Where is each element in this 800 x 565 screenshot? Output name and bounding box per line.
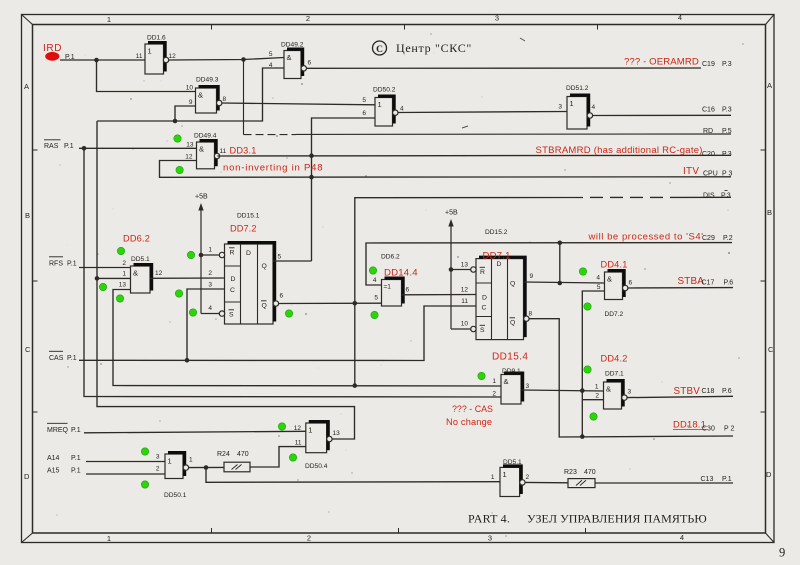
- wire DD7.1 pin 2 stub: [582, 399, 603, 401]
- resistor R23 470: [564, 469, 596, 488]
- svg-text:2: 2: [122, 260, 126, 267]
- red note DD14.4: [384, 268, 418, 279]
- node junction pin9/feedback: [173, 119, 178, 124]
- resistor R24 470: [217, 451, 250, 472]
- svg-text:R: R: [480, 269, 485, 276]
- svg-text:??? - OERAMRD: ??? - OERAMRD: [624, 57, 699, 68]
- svg-text:8: 8: [529, 311, 533, 318]
- svg-text:Q: Q: [510, 281, 515, 288]
- power +5B rail (right): [445, 210, 471, 330]
- svg-text:DD50.1: DD50.1: [164, 492, 187, 499]
- net label A14 P.1: [47, 455, 81, 462]
- svg-text:B: B: [25, 211, 30, 220]
- wire RD net down and right to RD P.5: [244, 60, 732, 135]
- wire DD15.1 pin 6 (Qbar) to DD6.2 pin 5: [273, 301, 381, 306]
- node junction DD50.1 out: [204, 465, 209, 470]
- red note DD6.2: [123, 234, 150, 244]
- node junction y385/Qbar vertical: [353, 383, 358, 388]
- svg-text:6: 6: [280, 293, 284, 300]
- wire DD1.6 pin 12 to DD49.2 pin 5: [169, 58, 284, 61]
- red note DD4.1: [601, 260, 628, 270]
- red note DD7.1 (on DD15.2): [483, 251, 511, 262]
- node junction CAS / pin3: [185, 358, 190, 363]
- red note DD4.2: [601, 354, 628, 364]
- svg-text:1: 1: [491, 474, 495, 481]
- node junction DD9.1 out / vertical: [580, 388, 585, 393]
- wire DD15.1 pin 5 (Q) up to DD50.2 pin 6: [273, 260, 312, 262]
- gate DD50.1: [156, 453, 193, 499]
- svg-text:1: 1: [107, 15, 111, 24]
- power +5B rail (left): [195, 194, 219, 314]
- net label A15 P.1: [47, 468, 81, 475]
- svg-text:2: 2: [492, 391, 496, 398]
- svg-text:S: S: [480, 327, 485, 334]
- svg-text:CPU: CPU: [703, 171, 718, 178]
- wire RAS to DD49.4 pin 13: [79, 147, 197, 149]
- red note DD3.1: [230, 146, 257, 156]
- svg-text:??? - CAS: ??? - CAS: [452, 404, 493, 414]
- svg-text:RD: RD: [703, 128, 713, 135]
- wire DD5.1 pin 13 down to y385 line: [113, 290, 501, 387]
- svg-text:3: 3: [558, 104, 562, 111]
- wire DD51.2 pin 4 to C16: [592, 114, 731, 116]
- svg-text:MREQ: MREQ: [47, 427, 69, 434]
- svg-text:11: 11: [295, 440, 302, 447]
- wire feedback line y121 to DD49.2 pin 4: [97, 68, 284, 121]
- svg-text:4: 4: [269, 62, 273, 69]
- svg-text:DD1.6: DD1.6: [147, 35, 166, 42]
- wire A15 to DD50.1 pin 2: [86, 473, 165, 475]
- red note ??? - OERAMRD: [624, 57, 699, 68]
- gate DD50.2: [362, 87, 404, 127]
- svg-text:DD7.1: DD7.1: [605, 371, 624, 378]
- wire DD4.1 pin 5 vertical to C30: [582, 291, 604, 437]
- svg-text:4: 4: [373, 277, 377, 284]
- wire DD49.3 pin 8 to DD50.2 pin 5: [222, 103, 375, 105]
- svg-text:2: 2: [307, 534, 311, 543]
- svg-text:P.1: P.1: [71, 455, 81, 462]
- svg-text:C20: C20: [702, 151, 715, 158]
- svg-text:R23: R23: [564, 469, 577, 476]
- net label C19 P.3: [702, 61, 732, 68]
- svg-text:P 3: P 3: [722, 171, 732, 178]
- red note DD7.2 (on DD15.1): [230, 224, 257, 234]
- net label C18 P.6: [702, 388, 732, 395]
- net label DIS P.3: [703, 191, 731, 200]
- svg-text:D: D: [482, 295, 487, 302]
- svg-text:P.6: P.6: [722, 388, 732, 395]
- wire feedback to DD5.1 pin 1: [97, 277, 131, 279]
- svg-text:DD6.2: DD6.2: [381, 254, 400, 261]
- wire DD50.2 pin 6 from Q vertical: [312, 118, 376, 261]
- svg-text:1: 1: [378, 100, 382, 109]
- svg-text:S: S: [229, 312, 234, 319]
- node junction Qbar/DIS: [353, 301, 358, 306]
- svg-text:C29: C29: [702, 235, 715, 242]
- svg-text:4: 4: [678, 13, 682, 22]
- svg-text:470: 470: [584, 469, 596, 476]
- svg-text:C18: C18: [702, 388, 715, 395]
- svg-text:DD5.1: DD5.1: [131, 256, 150, 263]
- svg-text:6: 6: [629, 280, 633, 287]
- svg-text:13: 13: [333, 430, 341, 437]
- red note will be processed to 'S4': [588, 232, 704, 243]
- wire DD15.1 pin 3 from CAS: [187, 289, 225, 360]
- svg-text:4: 4: [592, 104, 596, 111]
- wire DD49.4 pin 11 to C20 (STBRAMRD): [217, 154, 731, 157]
- svg-text:DD49.4: DD49.4: [194, 133, 217, 140]
- svg-text:will be processed to 'S4': will be processed to 'S4': [588, 232, 704, 243]
- node junction RAS: [82, 146, 87, 151]
- svg-text:ITV: ITV: [683, 166, 699, 177]
- node junction on IRD wire: [94, 58, 99, 63]
- svg-text:P.1: P.1: [71, 427, 81, 434]
- net label MREQ P.1: [47, 423, 81, 434]
- wire Qbar up to DIS line: [355, 197, 731, 303]
- svg-text:P.1: P.1: [722, 476, 732, 483]
- svg-text:PART 4.: PART 4.: [468, 512, 510, 526]
- svg-text:1: 1: [308, 426, 312, 435]
- svg-text:P.5: P.5: [722, 128, 732, 135]
- wire DD6.2 pin 6 to DD15.2 pin 12: [402, 294, 476, 296]
- svg-text:R: R: [230, 250, 235, 257]
- svg-text:A14: A14: [47, 455, 60, 462]
- svg-text:DD4.2: DD4.2: [601, 354, 628, 364]
- svg-text:DD49.2: DD49.2: [281, 42, 304, 49]
- svg-text:13: 13: [461, 262, 469, 269]
- net label C13 P.1: [701, 476, 732, 483]
- svg-text:P.3: P.3: [722, 151, 732, 158]
- svg-text:УЗЕЛ УПРАВЛЕНИЯ ПАМЯТЬЮ: УЗЕЛ УПРАВЛЕНИЯ ПАМЯТЬЮ: [527, 512, 707, 526]
- svg-text:C: C: [230, 287, 235, 294]
- svg-text:R24: R24: [217, 451, 230, 458]
- red note STBRAMRD (has additional RC-gate): [536, 145, 703, 156]
- svg-text:1: 1: [503, 470, 507, 479]
- svg-text:1: 1: [492, 378, 496, 385]
- svg-text:&: &: [607, 275, 612, 284]
- svg-text:2: 2: [208, 270, 212, 277]
- svg-text:A: A: [767, 81, 772, 90]
- svg-text:DD3.1: DD3.1: [230, 146, 257, 156]
- page number 9: [779, 546, 785, 560]
- svg-text:P.1: P.1: [71, 468, 81, 475]
- svg-text:4: 4: [596, 275, 600, 282]
- red note STBA: [678, 276, 705, 287]
- svg-text:D: D: [246, 250, 251, 257]
- svg-text:P.3: P.3: [721, 193, 731, 200]
- svg-text:DD9.1: DD9.1: [502, 368, 521, 375]
- svg-text:12: 12: [461, 287, 469, 294]
- svg-text:1: 1: [189, 457, 193, 464]
- red note ITV: [683, 166, 699, 177]
- gate DD49.3: [186, 77, 227, 114]
- svg-text:12: 12: [185, 154, 193, 161]
- svg-text:&: &: [199, 145, 204, 154]
- svg-text:1: 1: [107, 534, 111, 543]
- red note STBV: [674, 386, 701, 397]
- svg-text:RAS: RAS: [44, 143, 59, 150]
- svg-text:Q: Q: [262, 263, 267, 270]
- svg-text:12: 12: [155, 270, 163, 277]
- node junction C30/DD7.1 branch: [580, 434, 585, 439]
- red note ??? - CAS / No change: [446, 404, 493, 427]
- svg-text:6: 6: [362, 110, 366, 117]
- wire R23 to C13: [595, 482, 733, 484]
- net label RFS P.1: [49, 257, 77, 268]
- svg-text:&: &: [287, 53, 292, 62]
- svg-text:2: 2: [156, 466, 160, 473]
- net label C20 P.3: [702, 151, 732, 158]
- svg-text:1: 1: [570, 99, 574, 108]
- svg-text:B: B: [767, 208, 772, 217]
- node junction feedback to DD5.1 pin 1: [95, 276, 100, 281]
- svg-text:DD5.1: DD5.1: [503, 459, 522, 466]
- wire DD49.3 pin 9 from y121 line: [175, 106, 196, 121]
- node junction on C20 line: [309, 153, 314, 158]
- inverter DD1.6: [136, 35, 176, 75]
- wire DD5.1 pin 2 to R23: [525, 481, 568, 483]
- svg-text:&: &: [504, 377, 509, 386]
- gate DD49.2: [269, 42, 312, 79]
- gate DD9.1: [492, 368, 529, 404]
- svg-text:DD15.2: DD15.2: [485, 229, 508, 236]
- svg-text:P.3: P.3: [722, 61, 732, 68]
- svg-text:3: 3: [526, 383, 530, 390]
- svg-text:A15: A15: [47, 468, 60, 475]
- flip-flop DD15.1: [208, 213, 283, 325]
- svg-text:13: 13: [119, 282, 127, 289]
- svg-text:C: C: [25, 345, 31, 354]
- svg-text:5: 5: [597, 284, 601, 291]
- svg-text:5: 5: [278, 254, 282, 261]
- svg-text:DD51.2: DD51.2: [566, 85, 589, 92]
- gate DD5.1 (bottom): [491, 459, 530, 497]
- svg-text:Центр "СКС": Центр "СКС": [396, 41, 472, 55]
- svg-text:6: 6: [308, 60, 312, 67]
- svg-text:D: D: [24, 472, 30, 481]
- gate DD49.4: [185, 133, 226, 169]
- red note DD15.4: [492, 352, 528, 363]
- svg-text:1: 1: [595, 384, 599, 391]
- red note DD18.1: [673, 419, 706, 430]
- svg-text:DIS: DIS: [703, 193, 715, 200]
- svg-text:DD7.2: DD7.2: [230, 224, 257, 234]
- svg-text:P.1: P.1: [67, 355, 77, 362]
- svg-text:9: 9: [530, 273, 534, 280]
- svg-text:DD4.1: DD4.1: [601, 260, 628, 270]
- wire DD49.2 pin 6 to C19 (OERAMRD): [307, 67, 701, 69]
- red note non-inverting in P48: [223, 163, 323, 174]
- wire CAS to DD15.2 pin 11: [79, 306, 476, 361]
- svg-text:DD49.3: DD49.3: [196, 77, 219, 84]
- svg-text:D: D: [497, 261, 502, 268]
- svg-text:2: 2: [306, 14, 310, 23]
- svg-text:12: 12: [294, 425, 302, 432]
- svg-text:5: 5: [362, 97, 366, 104]
- gate DD51.2: [558, 85, 595, 129]
- svg-text:3: 3: [488, 534, 492, 543]
- wire DD50.2 pin 4 to DD51.2 pin 3: [398, 112, 567, 113]
- svg-text:DD50.4: DD50.4: [305, 463, 328, 470]
- wire A14 to DD50.1 pin 3: [86, 461, 165, 463]
- svg-text:11: 11: [220, 148, 227, 155]
- wire MREQ to DD50.4 pin 12: [84, 431, 306, 433]
- svg-text:1: 1: [148, 47, 152, 56]
- svg-text:STBV: STBV: [674, 386, 701, 397]
- svg-text:Q: Q: [262, 303, 267, 310]
- gate DD7.1: [595, 371, 632, 410]
- svg-text:+5B: +5B: [195, 194, 208, 201]
- svg-text:9: 9: [189, 99, 193, 106]
- svg-text:non-inverting in P48: non-inverting in P48: [223, 163, 323, 174]
- svg-text:2: 2: [595, 393, 599, 400]
- flip-flop DD15.2: [461, 229, 534, 340]
- wire C29 branch down to Q wire: [559, 243, 561, 283]
- svg-text:P.2: P.2: [723, 235, 733, 242]
- svg-text:&: &: [606, 385, 611, 394]
- wire DD4.1 pin 6 to C17 (STBA): [628, 287, 733, 289]
- title PART 4. УЗЕЛ УПРАВЛЕНИЯ ПАМЯТЬЮ: [468, 512, 707, 526]
- svg-text:10: 10: [186, 85, 194, 92]
- svg-text:1: 1: [168, 457, 172, 466]
- svg-text:2: 2: [526, 474, 530, 481]
- svg-text:STBRAMRD (has additional RC-ga: STBRAMRD (has additional RC-gate): [536, 145, 703, 156]
- svg-text:C: C: [768, 345, 774, 354]
- svg-text:P.1: P.1: [67, 261, 77, 268]
- node junction on CPU line: [309, 175, 314, 180]
- net label C17 P.6: [702, 280, 734, 287]
- svg-text:C16: C16: [702, 107, 715, 114]
- svg-text:5: 5: [374, 295, 378, 302]
- svg-text:1: 1: [122, 271, 126, 278]
- svg-text:P.3: P.3: [722, 107, 732, 114]
- svg-text:13: 13: [186, 142, 194, 149]
- svg-text:3: 3: [628, 389, 632, 396]
- svg-text:DD7.1: DD7.1: [483, 251, 511, 262]
- svg-text:A: A: [24, 82, 29, 91]
- wire IRD to DD1.6 pin 11: [60, 59, 145, 61]
- svg-text:P.6: P.6: [724, 280, 734, 287]
- wire DD5.1 pin 12 to DD15.1 pin 2: [150, 277, 225, 279]
- svg-text:DD15.1: DD15.1: [237, 213, 260, 220]
- svg-text:C: C: [376, 45, 383, 55]
- node junction C29/DD4.1 branch: [558, 241, 563, 246]
- wire DD7.1 pin 3 to C18 (STBV): [627, 396, 733, 397]
- wire Qbar down to y385 line: [354, 303, 356, 385]
- wire C29 net (pin4 / S4 line): [366, 243, 732, 285]
- wire DD50.1 pin 1 to R24: [188, 466, 224, 468]
- svg-text:10: 10: [461, 321, 469, 328]
- svg-text:3: 3: [208, 282, 212, 289]
- svg-text:RFS: RFS: [49, 261, 63, 268]
- node junction Q wire: [558, 281, 563, 286]
- wire DD9.1 pin 3 to DD7.1 pin 1: [521, 390, 603, 391]
- net label C29 P.2: [702, 235, 733, 242]
- net label CPU P.3: [703, 171, 732, 178]
- wire DD50.1 out down to C13 line: [206, 468, 500, 483]
- net label RD P.5: [703, 128, 732, 135]
- wire RFS to DD5.1 pin 2: [79, 267, 131, 269]
- green check dots: [99, 135, 597, 488]
- svg-text:9: 9: [779, 546, 785, 560]
- gate DD6.2 (XOR): [373, 254, 410, 307]
- net label RAS P.1: [44, 140, 74, 150]
- svg-text:DD6.2: DD6.2: [123, 234, 150, 244]
- svg-text:&: &: [198, 91, 203, 100]
- net label C30 P.2: [702, 426, 734, 433]
- wire IRD branch down to DD49.3 pin 10: [97, 60, 196, 92]
- wire DD15.2 pin 8 (Qbar) to C30: [524, 316, 733, 437]
- wire feedback vertical from DD50.4 pin 13: [97, 121, 355, 439]
- svg-text:C17: C17: [702, 280, 715, 287]
- svg-text:CAS: CAS: [49, 355, 64, 362]
- wire DD49.4 pin 12 loop to CPU line: [160, 161, 732, 178]
- svg-text:DD7.2: DD7.2: [605, 311, 624, 318]
- net label C16 P.3: [702, 107, 732, 114]
- wire RAS down to DD9.1 pin 2: [84, 148, 501, 397]
- svg-text:3: 3: [495, 14, 499, 23]
- svg-text:No change: No change: [446, 417, 492, 427]
- svg-text:12: 12: [169, 53, 177, 60]
- gate DD4.1: [596, 271, 632, 318]
- svg-text:Q: Q: [510, 320, 515, 327]
- svg-text:11: 11: [136, 53, 143, 60]
- svg-text:5: 5: [269, 51, 273, 58]
- svg-text:4: 4: [400, 106, 404, 113]
- node junction RD branch: [241, 57, 246, 62]
- svg-text:=1: =1: [384, 284, 392, 291]
- net label CAS P.1: [49, 351, 77, 362]
- svg-text:C19: C19: [702, 61, 715, 68]
- svg-text:11: 11: [461, 298, 468, 305]
- svg-text:D: D: [766, 470, 772, 479]
- svg-text:DD50.2: DD50.2: [373, 87, 396, 94]
- svg-text:4: 4: [208, 305, 212, 312]
- svg-text:P.1: P.1: [64, 143, 74, 150]
- gate DD5.1 (top): [119, 256, 163, 293]
- svg-text:470: 470: [237, 451, 249, 458]
- net label IRD (red) with blob, P.1: [43, 43, 75, 61]
- svg-text:C: C: [482, 305, 487, 312]
- svg-text:1: 1: [208, 247, 212, 254]
- svg-text:C30: C30: [702, 426, 715, 433]
- svg-text:C13: C13: [701, 476, 714, 483]
- wire DD15.2 pin 9 (Q) to DD4.1 pin 4: [524, 282, 605, 283]
- svg-text:P 2: P 2: [724, 426, 734, 433]
- svg-text:DD15.4: DD15.4: [492, 352, 528, 363]
- svg-text:STBA: STBA: [678, 276, 705, 287]
- gate DD50.4: [294, 422, 340, 470]
- svg-text:IRD: IRD: [43, 43, 62, 54]
- svg-text:3: 3: [156, 454, 160, 461]
- svg-text:+5B: +5B: [445, 210, 458, 217]
- svg-text:D: D: [231, 276, 236, 283]
- svg-text:&: &: [133, 269, 138, 278]
- svg-text:4: 4: [680, 533, 684, 542]
- svg-text:8: 8: [223, 96, 227, 103]
- wire R24 to DD50.4 pin 11: [250, 447, 306, 467]
- copyright Центр СКС: [373, 41, 473, 55]
- svg-text:6: 6: [406, 287, 410, 294]
